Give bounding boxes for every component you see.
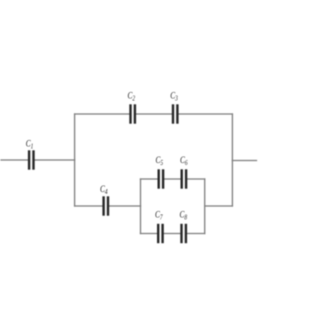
capacitor C4 bbox=[104, 196, 108, 215]
svg-text:C5: C5 bbox=[156, 155, 164, 167]
wire top branch segment 3 bbox=[179, 113, 233, 115]
capacitor C7 bbox=[158, 224, 162, 243]
svg-text:C1: C1 bbox=[26, 139, 34, 151]
capacitor C6 bbox=[182, 169, 186, 188]
wire inner bottom segment 2 bbox=[164, 233, 181, 235]
svg-text:C6: C6 bbox=[180, 155, 188, 167]
capacitor C8 bbox=[182, 224, 186, 243]
wire input lead right segment bbox=[35, 159, 75, 161]
wire inner top segment 3 bbox=[187, 178, 204, 180]
wire top branch segment 2 bbox=[136, 113, 172, 115]
wire inner bottom segment 3 bbox=[187, 233, 205, 235]
wire bottom branch segment 1 bbox=[75, 205, 103, 207]
svg-text:C4: C4 bbox=[100, 184, 108, 196]
capacitor C2 bbox=[131, 104, 135, 123]
wire bottom branch segment 2 bbox=[109, 205, 140, 207]
wire inner bottom segment 1 bbox=[141, 233, 158, 235]
wire inner top segment 2 bbox=[164, 178, 180, 180]
wire inner box to right bus bbox=[205, 205, 233, 207]
svg-text:C7: C7 bbox=[155, 209, 163, 221]
wire inner right vertical bbox=[204, 179, 206, 234]
wire top branch segment 1 bbox=[75, 113, 130, 115]
wire output lead bbox=[232, 160, 256, 162]
svg-text:C2: C2 bbox=[128, 90, 136, 102]
wire inner top segment 1 bbox=[141, 178, 158, 180]
wire right vertical bus bbox=[231, 114, 233, 206]
capacitor C3 bbox=[173, 104, 177, 123]
capacitor C1 bbox=[29, 150, 33, 169]
svg-text:C8: C8 bbox=[180, 209, 188, 221]
svg-text:C3: C3 bbox=[170, 90, 178, 102]
wire input lead left segment bbox=[1, 159, 28, 161]
capacitor C5 bbox=[159, 169, 163, 188]
wire inner left vertical bbox=[140, 179, 142, 234]
wire left vertical bus bbox=[74, 114, 76, 206]
